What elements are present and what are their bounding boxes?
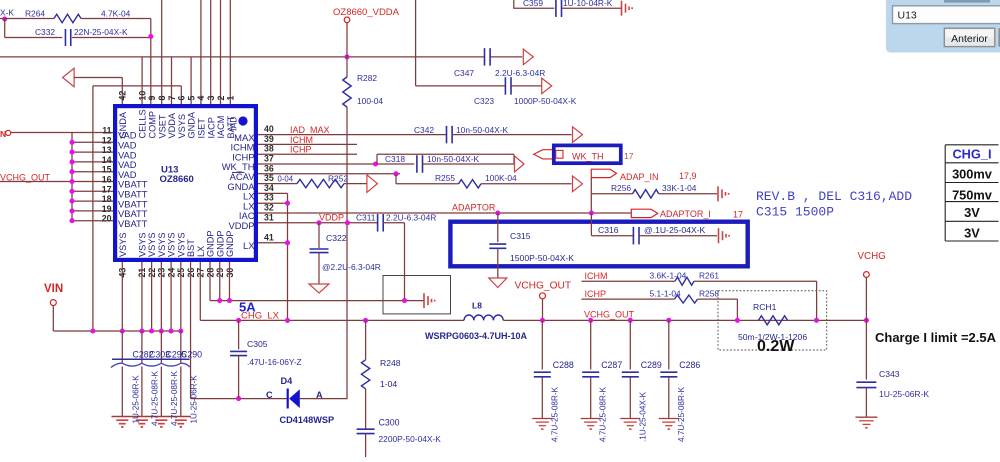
svg-text:1: 1 — [226, 96, 236, 101]
wire pin10 from rail — [141, 57, 143, 104]
wire ICHM — [582, 280, 676, 282]
svg-text:R252: R252 — [328, 174, 348, 184]
wire pin6 drop — [180, 86, 182, 104]
svg-text:C315: C315 — [510, 231, 531, 241]
wire pin24 to VIN — [170, 262, 172, 331]
junction — [69, 169, 74, 174]
wire pin18 stub — [72, 200, 113, 202]
svg-text:GNDP: GNDP — [225, 230, 235, 257]
wire pin19 stub — [72, 210, 113, 212]
svg-text:100-04: 100-04 — [357, 96, 383, 106]
svg-text:D4: D4 — [281, 376, 294, 386]
inductor L8 — [464, 315, 503, 320]
svg-text:IACP: IACP — [206, 117, 216, 138]
svg-text:11: 11 — [102, 126, 111, 136]
wire — [481, 183, 572, 185]
wire cap drop — [121, 331, 123, 364]
capacitor C286 — [660, 371, 677, 373]
wire pin6 jog — [93, 85, 181, 87]
svg-text:C305: C305 — [247, 339, 268, 349]
wire ICHP — [582, 298, 675, 300]
svg-text:VDDP: VDDP — [228, 220, 254, 231]
wire cap gnd — [160, 367, 162, 417]
ui input box — [893, 6, 1000, 24]
svg-text:0.2W: 0.2W — [757, 338, 795, 355]
svg-text:3.6K-1-04: 3.6K-1-04 — [650, 271, 687, 281]
svg-text:18: 18 — [102, 194, 112, 204]
wire pin28 gndp — [209, 262, 211, 301]
wire C286 top — [668, 320, 670, 369]
svg-text:39: 39 — [264, 134, 274, 144]
svg-text:ICHP: ICHP — [290, 145, 312, 155]
svg-text:38: 38 — [264, 144, 274, 154]
svg-text:C343: C343 — [879, 369, 900, 379]
junction — [236, 318, 241, 323]
svg-text:ADAPTOR: ADAPTOR — [452, 203, 496, 213]
junction — [227, 298, 232, 303]
svg-text:GNDP: GNDP — [206, 230, 216, 257]
pin1 marker dot — [238, 116, 247, 125]
ui button Anterior — [944, 28, 995, 46]
svg-text:2200P-50-04X-K: 2200P-50-04X-K — [379, 434, 442, 444]
connector ADAPTOR_I — [631, 209, 657, 217]
svg-text:RCH1: RCH1 — [753, 302, 777, 312]
wire — [590, 178, 592, 214]
svg-text:2.2U-6.3-04R: 2.2U-6.3-04R — [495, 68, 545, 78]
wire VDDP — [258, 222, 378, 224]
svg-text:34: 34 — [264, 183, 274, 193]
svg-text:C311: C311 — [356, 212, 376, 222]
ui button 2 sliver — [998, 28, 1000, 46]
ui text sliver — [944, 0, 990, 3]
wire LX — [258, 192, 288, 194]
svg-text:.1U-25-04X-K: .1U-25-04X-K — [638, 391, 647, 442]
wire IAC/ADAPTOR — [258, 212, 631, 214]
arrow out — [542, 78, 552, 94]
svg-text:1500P-50-04X-K: 1500P-50-04X-K — [510, 253, 574, 263]
wire — [344, 183, 367, 185]
svg-text:C318: C318 — [385, 154, 405, 164]
junction — [735, 318, 740, 323]
wire — [5, 37, 63, 39]
svg-text:CHG_I: CHG_I — [952, 146, 991, 161]
svg-text:C342: C342 — [414, 125, 434, 135]
svg-text:C315 1500P: C315 1500P — [756, 205, 834, 220]
wire C316 left — [590, 213, 592, 236]
svg-text:31: 31 — [264, 212, 274, 222]
svg-text:4.7U-25-08R-K: 4.7U-25-08R-K — [550, 386, 559, 442]
junction — [217, 298, 222, 303]
wire — [736, 299, 738, 320]
svg-text:17: 17 — [733, 210, 743, 220]
svg-text:OZ8660: OZ8660 — [160, 174, 194, 185]
wire pin15 stub — [72, 171, 113, 173]
svg-text:LX: LX — [243, 240, 255, 251]
junction — [540, 318, 545, 323]
resistor R248 — [361, 360, 369, 389]
junction — [814, 318, 819, 323]
junction — [149, 328, 154, 333]
svg-text:VCHG_OUT: VCHG_OUT — [515, 281, 572, 292]
svg-text:7: 7 — [167, 96, 177, 101]
wire cap drop — [180, 331, 182, 364]
wire ACAV — [258, 173, 400, 175]
svg-text:IAD: IAD — [229, 116, 239, 131]
capacitor C318 — [416, 155, 418, 173]
wire — [415, 0, 417, 86]
capacitor C315 — [489, 243, 506, 245]
capacitor C343 — [856, 381, 876, 383]
capacitor C322 — [310, 248, 329, 250]
junction — [864, 318, 869, 323]
svg-text:R248: R248 — [380, 358, 401, 368]
svg-text:CELLS: CELLS — [138, 109, 148, 138]
wire — [383, 222, 405, 224]
svg-text:R282: R282 — [357, 73, 377, 83]
svg-text:VCHG: VCHG — [858, 251, 886, 262]
capacitor C282/C303/C295/C290 top plates — [112, 358, 190, 360]
svg-text:C290: C290 — [181, 349, 202, 359]
junction C332/pin9 — [148, 34, 153, 39]
junction — [316, 220, 321, 225]
svg-text:5: 5 — [186, 96, 196, 101]
wire — [816, 281, 818, 320]
wire pin2 from top — [220, 0, 222, 104]
junction — [363, 318, 368, 323]
svg-text:CD4148WSP: CD4148WSP — [280, 415, 335, 425]
wire C289 gnd — [629, 377, 631, 419]
svg-text:WSRPG0603-4.7UH-10A: WSRPG0603-4.7UH-10A — [425, 331, 528, 341]
junction — [69, 150, 74, 155]
svg-text:42: 42 — [118, 91, 128, 101]
svg-text:41: 41 — [264, 232, 274, 242]
wire pin13 stub — [72, 151, 113, 153]
svg-text:4.7U-25-08R-K: 4.7U-25-08R-K — [170, 370, 179, 426]
ground — [116, 419, 128, 421]
wire pin5 from rail — [190, 57, 192, 104]
junction — [120, 328, 125, 333]
op-amp U1 IC U13 OZ8660 body — [115, 106, 256, 260]
svg-text:VSYS: VSYS — [167, 232, 177, 257]
svg-text:10n-50-04X-K: 10n-50-04X-K — [427, 154, 480, 164]
wire — [511, 85, 541, 87]
wire GNDP — [210, 300, 424, 302]
svg-text:300mv: 300mv — [952, 166, 993, 181]
svg-text:VSYS: VSYS — [176, 232, 186, 257]
svg-text:GNDA: GNDA — [118, 111, 128, 138]
wire C315 top — [497, 213, 499, 242]
wire cap drop — [160, 331, 162, 364]
capacitor C288 — [534, 371, 551, 373]
wire — [513, 7, 554, 9]
table CHG_I grid — [945, 145, 998, 241]
wire WK_TH — [258, 163, 414, 165]
wire C343 gnd — [865, 388, 867, 418]
wire — [638, 235, 717, 237]
svg-text:5A: 5A — [239, 300, 256, 315]
svg-text:15: 15 — [102, 165, 112, 175]
arrow out — [573, 127, 583, 143]
wire pin20 stub — [72, 220, 113, 222]
svg-text:C300: C300 — [379, 418, 400, 428]
junction — [159, 328, 164, 333]
svg-text:C316: C316 — [598, 225, 619, 235]
wire left bus — [71, 133, 73, 221]
capacitor C323 — [504, 77, 506, 95]
svg-text:20: 20 — [102, 214, 112, 224]
junction — [285, 240, 290, 245]
svg-text:2.2U-6.3-04R: 2.2U-6.3-04R — [386, 212, 436, 222]
svg-text:1U-10-04R-K: 1U-10-04R-K — [563, 0, 613, 8]
junction — [628, 318, 633, 323]
arrow out — [367, 175, 378, 193]
wire GNDA row — [258, 183, 297, 185]
ground box — [383, 276, 451, 314]
wire pin12 stub — [72, 141, 113, 143]
svg-text:32: 32 — [264, 203, 274, 213]
svg-text:1-04: 1-04 — [380, 379, 397, 389]
wire pin9 drop — [150, 19, 152, 105]
svg-text:37: 37 — [264, 154, 274, 164]
svg-text:C359: C359 — [523, 0, 543, 8]
junction — [69, 208, 74, 213]
svg-text:C288: C288 — [553, 360, 574, 370]
svg-text:GNDA: GNDA — [187, 111, 197, 138]
svg-text:L8: L8 — [472, 301, 482, 311]
wire C288 gnd — [541, 377, 543, 419]
diode D4 — [287, 389, 289, 409]
svg-text:WK_TH: WK_TH — [572, 151, 604, 161]
wire pin3 from top — [210, 0, 212, 104]
svg-text:C322: C322 — [326, 233, 347, 243]
wire bypass right — [513, 154, 515, 164]
ground — [423, 293, 425, 308]
svg-text:COMP: COMP — [148, 111, 158, 139]
junction — [139, 328, 144, 333]
junction — [69, 218, 74, 223]
wire C315 bottom — [497, 248, 499, 278]
svg-text:VDDA: VDDA — [167, 112, 177, 138]
wire CHG_LX — [200, 319, 464, 321]
svg-text:22N-25-04X-K: 22N-25-04X-K — [74, 27, 128, 37]
svg-text:VSYS: VSYS — [118, 232, 128, 257]
svg-text:19: 19 — [102, 204, 112, 214]
junction — [236, 396, 241, 401]
ground — [717, 186, 719, 201]
wire LX41 — [258, 242, 288, 244]
svg-text:0-04: 0-04 — [278, 175, 294, 184]
wire pin42 drop — [121, 78, 123, 105]
svg-text:VSYS: VSYS — [147, 232, 157, 257]
resistor R264 — [54, 14, 81, 22]
junction — [345, 220, 350, 225]
capacitor C305 — [230, 350, 247, 352]
wire — [365, 434, 367, 457]
pin square WK_TH — [556, 150, 563, 158]
svg-text:VSYS: VSYS — [157, 232, 167, 257]
resistor R261 — [675, 277, 694, 285]
svg-text:VSYS: VSYS — [138, 232, 148, 257]
ground — [136, 419, 148, 421]
svg-text:4.7U-25-08R-K: 4.7U-25-08R-K — [599, 386, 608, 442]
svg-text:3V: 3V — [964, 225, 980, 240]
wire pin16 stub — [0, 181, 113, 183]
junction — [373, 161, 378, 166]
svg-text:36: 36 — [264, 163, 274, 173]
wire C287 gnd — [590, 377, 592, 419]
svg-text:C: C — [266, 390, 273, 400]
svg-text:VBATT: VBATT — [118, 218, 148, 229]
ground — [155, 419, 167, 421]
svg-text:17: 17 — [102, 184, 112, 194]
svg-text:1U-25-06R-K: 1U-25-06R-K — [132, 375, 141, 424]
junction — [178, 328, 183, 333]
wire VSYS feed — [92, 86, 94, 331]
terminal VIN — [50, 300, 56, 306]
svg-text:750mv: 750mv — [952, 187, 993, 202]
terminal N — [6, 130, 11, 135]
wire — [72, 37, 151, 39]
wire — [404, 223, 406, 301]
junction — [495, 210, 500, 215]
svg-text:3V: 3V — [964, 205, 980, 220]
svg-text:4.7K-04: 4.7K-04 — [101, 9, 131, 19]
junction — [69, 189, 74, 194]
svg-text:VIN: VIN — [44, 283, 63, 295]
svg-text:BST: BST — [186, 239, 196, 257]
junction — [666, 318, 671, 323]
wire R255 row — [396, 183, 459, 185]
junction R264/C332 left — [2, 16, 7, 21]
wire IAD_MAX — [258, 134, 447, 136]
wire bypass top — [377, 153, 514, 155]
svg-text:4.7U-25-08R-K: 4.7U-25-08R-K — [677, 386, 686, 442]
wire — [865, 277, 867, 320]
svg-text:8: 8 — [157, 96, 167, 101]
wire C343 top — [865, 320, 867, 379]
svg-text:X-K: X-K — [0, 8, 14, 18]
wire pin43 to VIN — [121, 262, 123, 331]
wire LX bus — [287, 193, 289, 320]
wire — [452, 134, 572, 136]
svg-text:2: 2 — [216, 96, 226, 101]
wire C287 top — [590, 320, 592, 369]
wire bypass left — [376, 154, 378, 164]
wire pin27 LX — [199, 262, 201, 320]
wire ICHM stub — [258, 143, 357, 145]
junction — [402, 298, 407, 303]
capacitor C316 — [632, 227, 634, 245]
svg-text:12: 12 — [102, 135, 112, 145]
ground — [718, 228, 720, 243]
junction — [69, 179, 74, 184]
capacitor C287 — [582, 371, 599, 373]
svg-text:VCHG_OUT: VCHG_OUT — [0, 172, 51, 182]
wire pin7 from rail — [171, 57, 173, 104]
wire — [365, 389, 367, 429]
connector tag WK_TH — [534, 150, 553, 159]
ground — [581, 418, 601, 420]
svg-text:1000P-50-04X-K: 1000P-50-04X-K — [514, 96, 577, 106]
svg-text:ADAP_IN: ADAP_IN — [620, 172, 659, 182]
wire cap drop — [141, 331, 143, 364]
svg-text:100K-04: 100K-04 — [485, 173, 517, 183]
junction — [393, 171, 398, 176]
svg-text:1U-25-06R-K: 1U-25-06R-K — [190, 375, 199, 424]
junction — [69, 140, 74, 145]
svg-text:C332: C332 — [35, 27, 55, 37]
svg-text:@.1U-25-04X-K: @.1U-25-04X-K — [644, 225, 706, 235]
svg-text:ISET: ISET — [197, 118, 207, 139]
wire — [591, 235, 634, 237]
svg-text:U13: U13 — [898, 10, 917, 22]
junction — [169, 328, 174, 333]
capacitor C332 — [64, 29, 66, 46]
svg-text:33K-1-04: 33K-1-04 — [662, 183, 697, 193]
connector ADAP_IN — [591, 169, 616, 177]
svg-text:14: 14 — [102, 155, 112, 165]
svg-text:Anterior: Anterior — [951, 33, 988, 45]
terminal VCHG — [864, 272, 870, 278]
wire — [395, 174, 397, 184]
wire — [11, 132, 72, 134]
svg-text:ADAPTOR_I: ADAPTOR_I — [660, 209, 711, 219]
capacitor C311 — [377, 214, 379, 232]
svg-text:Charge I limit =2.5A: Charge I limit =2.5A — [875, 330, 997, 345]
wire VDDP to D4 anode — [346, 223, 348, 399]
capacitor C359 — [555, 0, 557, 17]
ground — [855, 416, 877, 418]
wire LX — [258, 202, 288, 204]
wire pin29 gndp — [219, 262, 221, 301]
svg-text:VSET: VSET — [157, 114, 167, 138]
ground — [532, 418, 552, 420]
wire — [416, 85, 506, 87]
svg-text:16: 16 — [102, 175, 112, 185]
wire — [422, 163, 515, 165]
svg-text:VDDP: VDDP — [319, 212, 344, 222]
arrow gnda — [63, 68, 75, 86]
wire pin8 from top — [161, 0, 163, 104]
wire — [513, 0, 515, 8]
ui find panel — [886, 0, 1000, 53]
svg-text:C289: C289 — [641, 360, 662, 370]
wire pin22 to VIN — [151, 262, 153, 331]
wire C288 top — [541, 320, 543, 369]
wire ICHP stub — [258, 153, 357, 155]
highlight box C315 — [450, 222, 747, 267]
wire — [74, 77, 122, 79]
junction — [69, 159, 74, 164]
svg-text:LX: LX — [196, 246, 206, 257]
wire pin4 from top — [200, 0, 202, 104]
wire pin14 stub — [72, 161, 113, 163]
wire C305 top — [238, 320, 240, 349]
svg-text:ICHP: ICHP — [585, 289, 607, 299]
wire pin25 to VIN — [180, 262, 182, 331]
wire — [542, 299, 544, 321]
wire cap gnd — [180, 367, 182, 417]
junction — [285, 318, 290, 323]
svg-text:3: 3 — [206, 96, 216, 101]
wire — [318, 253, 320, 284]
svg-text:6: 6 — [177, 96, 187, 101]
svg-text:GNDP: GNDP — [215, 230, 225, 257]
wire pin1 from top — [229, 0, 231, 104]
junction — [69, 199, 74, 204]
svg-text:33: 33 — [264, 193, 274, 203]
highlight box WK_TH — [554, 145, 621, 163]
